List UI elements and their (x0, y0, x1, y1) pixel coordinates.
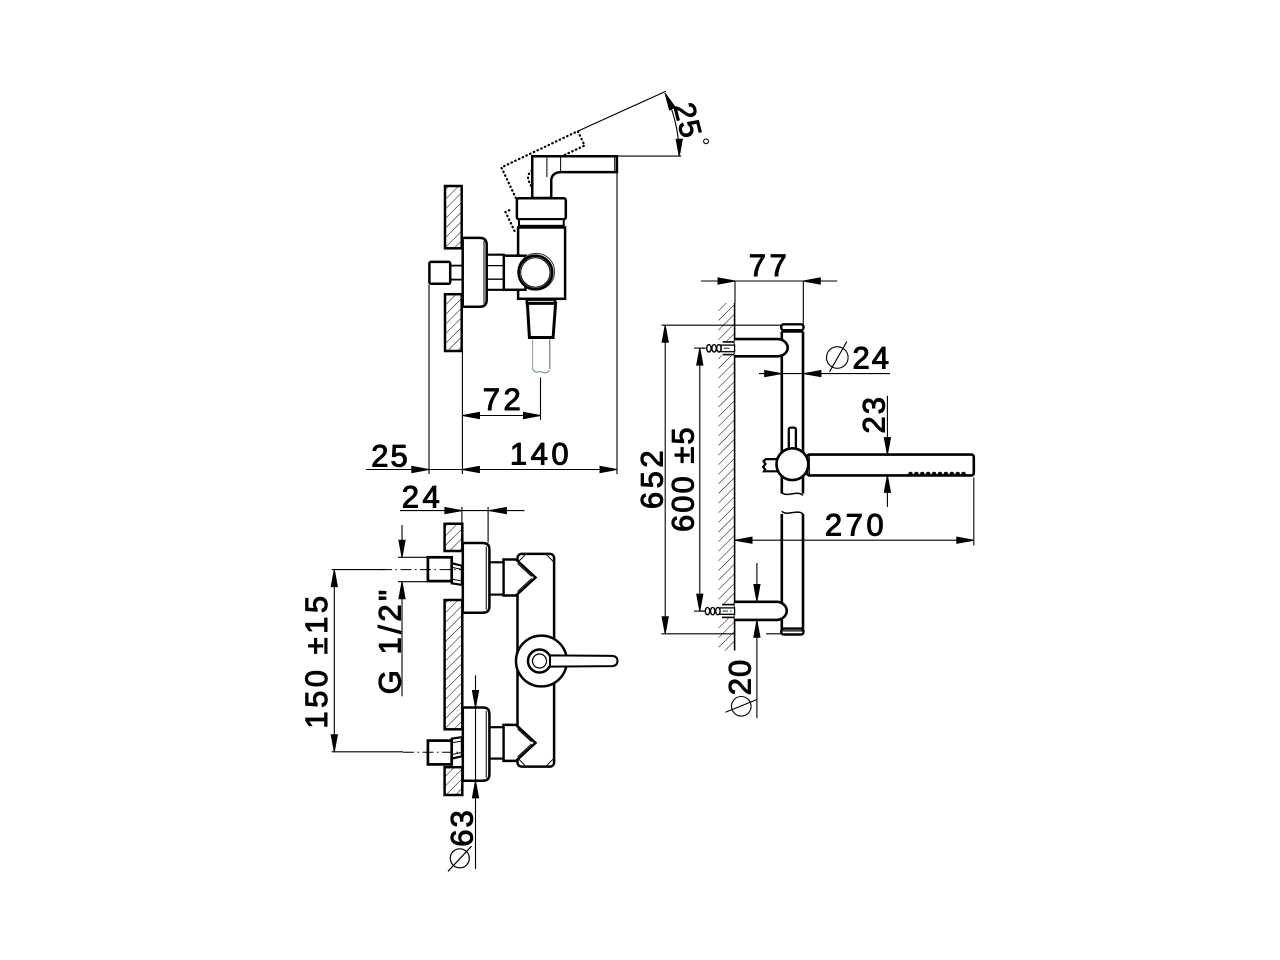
bottom wall bracket pipe (735, 602, 787, 620)
dim 77 (734, 281, 736, 303)
spout flange (527, 300, 555, 304)
bar top cap (781, 324, 803, 330)
svg-text:25: 25 (371, 439, 409, 474)
dim 24 (461, 507, 463, 524)
holder piece toward wall (broken) (763, 459, 782, 471)
top inlet centerline (381, 569, 462, 571)
svg-text:140: 140 (510, 437, 572, 472)
dim 270 (973, 478, 975, 546)
top rosette (463, 543, 490, 613)
top connection pipe (489, 562, 503, 594)
dim 25 / 140 (366, 469, 617, 471)
dim 150 +-15 (332, 569, 385, 571)
dim 600 +-5 (694, 347, 705, 349)
bottom inlet nut (428, 741, 452, 765)
bottom screw: thread rings (705, 607, 720, 614)
escutcheon plate (463, 238, 487, 307)
svg-text:23: 23 (857, 395, 892, 433)
dim G 1/2" (398, 556, 428, 558)
bar break mark (782, 493, 803, 496)
arc arrowheads (676, 139, 682, 156)
svg-text:24: 24 (402, 480, 443, 515)
phantom handle rotated 25 deg (dotted) (487, 131, 604, 231)
svg-text:20: 20 (723, 659, 758, 695)
dim 23 (886, 396, 888, 455)
mixer body (side) (518, 228, 565, 299)
wall face line (734, 303, 736, 651)
handle lever bar (550, 655, 618, 666)
handle base circle (516, 636, 567, 687)
top wall bracket pipe (735, 339, 788, 356)
slide bar right edge (802, 332, 805, 494)
slider ball (777, 448, 809, 480)
neck ring (519, 219, 564, 226)
connecting tube escutcheon-body (487, 254, 505, 256)
wall plate lower (hatched) (445, 294, 462, 351)
dim 652 (662, 324, 782, 326)
dim 72 (463, 415, 541, 417)
bottom connection pipe (489, 727, 503, 758)
bottom S-union cone (452, 737, 462, 759)
valve circle main (519, 256, 553, 290)
top inlet nut (428, 557, 452, 581)
hand shower handle (807, 455, 974, 476)
handle ring (528, 650, 551, 673)
dim dia24 (759, 373, 890, 375)
top screw: thread rings (707, 345, 721, 352)
stop-valve knob stem (450, 265, 463, 267)
dim dia63 (475, 675, 477, 869)
svg-text:G 1/2": G 1/2" (373, 586, 408, 694)
valve circle outer thin (518, 253, 555, 290)
bottom union nut (504, 725, 536, 761)
cartridge cap (517, 198, 566, 219)
body corner chamfers (519, 555, 525, 562)
svg-text:77: 77 (749, 248, 790, 283)
top screw: green centerline (702, 347, 732, 349)
bottom inlet centerline (403, 751, 462, 753)
bottom screw: shank (720, 608, 735, 614)
bottom rosette (463, 708, 490, 781)
spout cone (527, 303, 555, 337)
stop-valve knob (429, 262, 450, 284)
svg-text:72: 72 (483, 382, 524, 417)
top screw: shank (721, 345, 735, 352)
bottom screw: green centerline (701, 610, 732, 612)
angle line B (horizontal reference) (617, 155, 681, 157)
wall hatching (716, 301, 736, 653)
svg-text:652: 652 (635, 447, 670, 509)
valve circle inner thin (521, 258, 550, 287)
top S-union cone (452, 563, 462, 585)
bar bottom cap (781, 629, 803, 635)
wall plate middle (hatched) (445, 600, 463, 729)
angle line A (extension of rotated handle top edge) (578, 91, 666, 131)
svg-text:270: 270 (825, 508, 887, 543)
dim dia20 (756, 563, 758, 602)
spray nozzle dots (908, 472, 966, 477)
valve block (504, 256, 526, 290)
svg-text:600 ±5: 600 ±5 (666, 425, 701, 532)
dimension extension lines (428, 285, 430, 474)
svg-text:150 ±15: 150 ±15 (299, 592, 334, 728)
handle lever (solid) (532, 156, 617, 198)
mixer body (518, 554, 555, 767)
svg-text:63: 63 (445, 808, 480, 846)
wall plate upper (hatched) (445, 186, 462, 248)
svg-text:24: 24 (853, 340, 891, 375)
slide bar left edge (782, 332, 803, 629)
water stream (faint) (532, 339, 534, 369)
top union nut (504, 560, 536, 596)
angle arc 25deg (665, 93, 679, 156)
wall plate top (hatched) (445, 524, 463, 551)
slider lock tab (789, 428, 796, 450)
wall plate bottom (hatched) (445, 767, 463, 795)
